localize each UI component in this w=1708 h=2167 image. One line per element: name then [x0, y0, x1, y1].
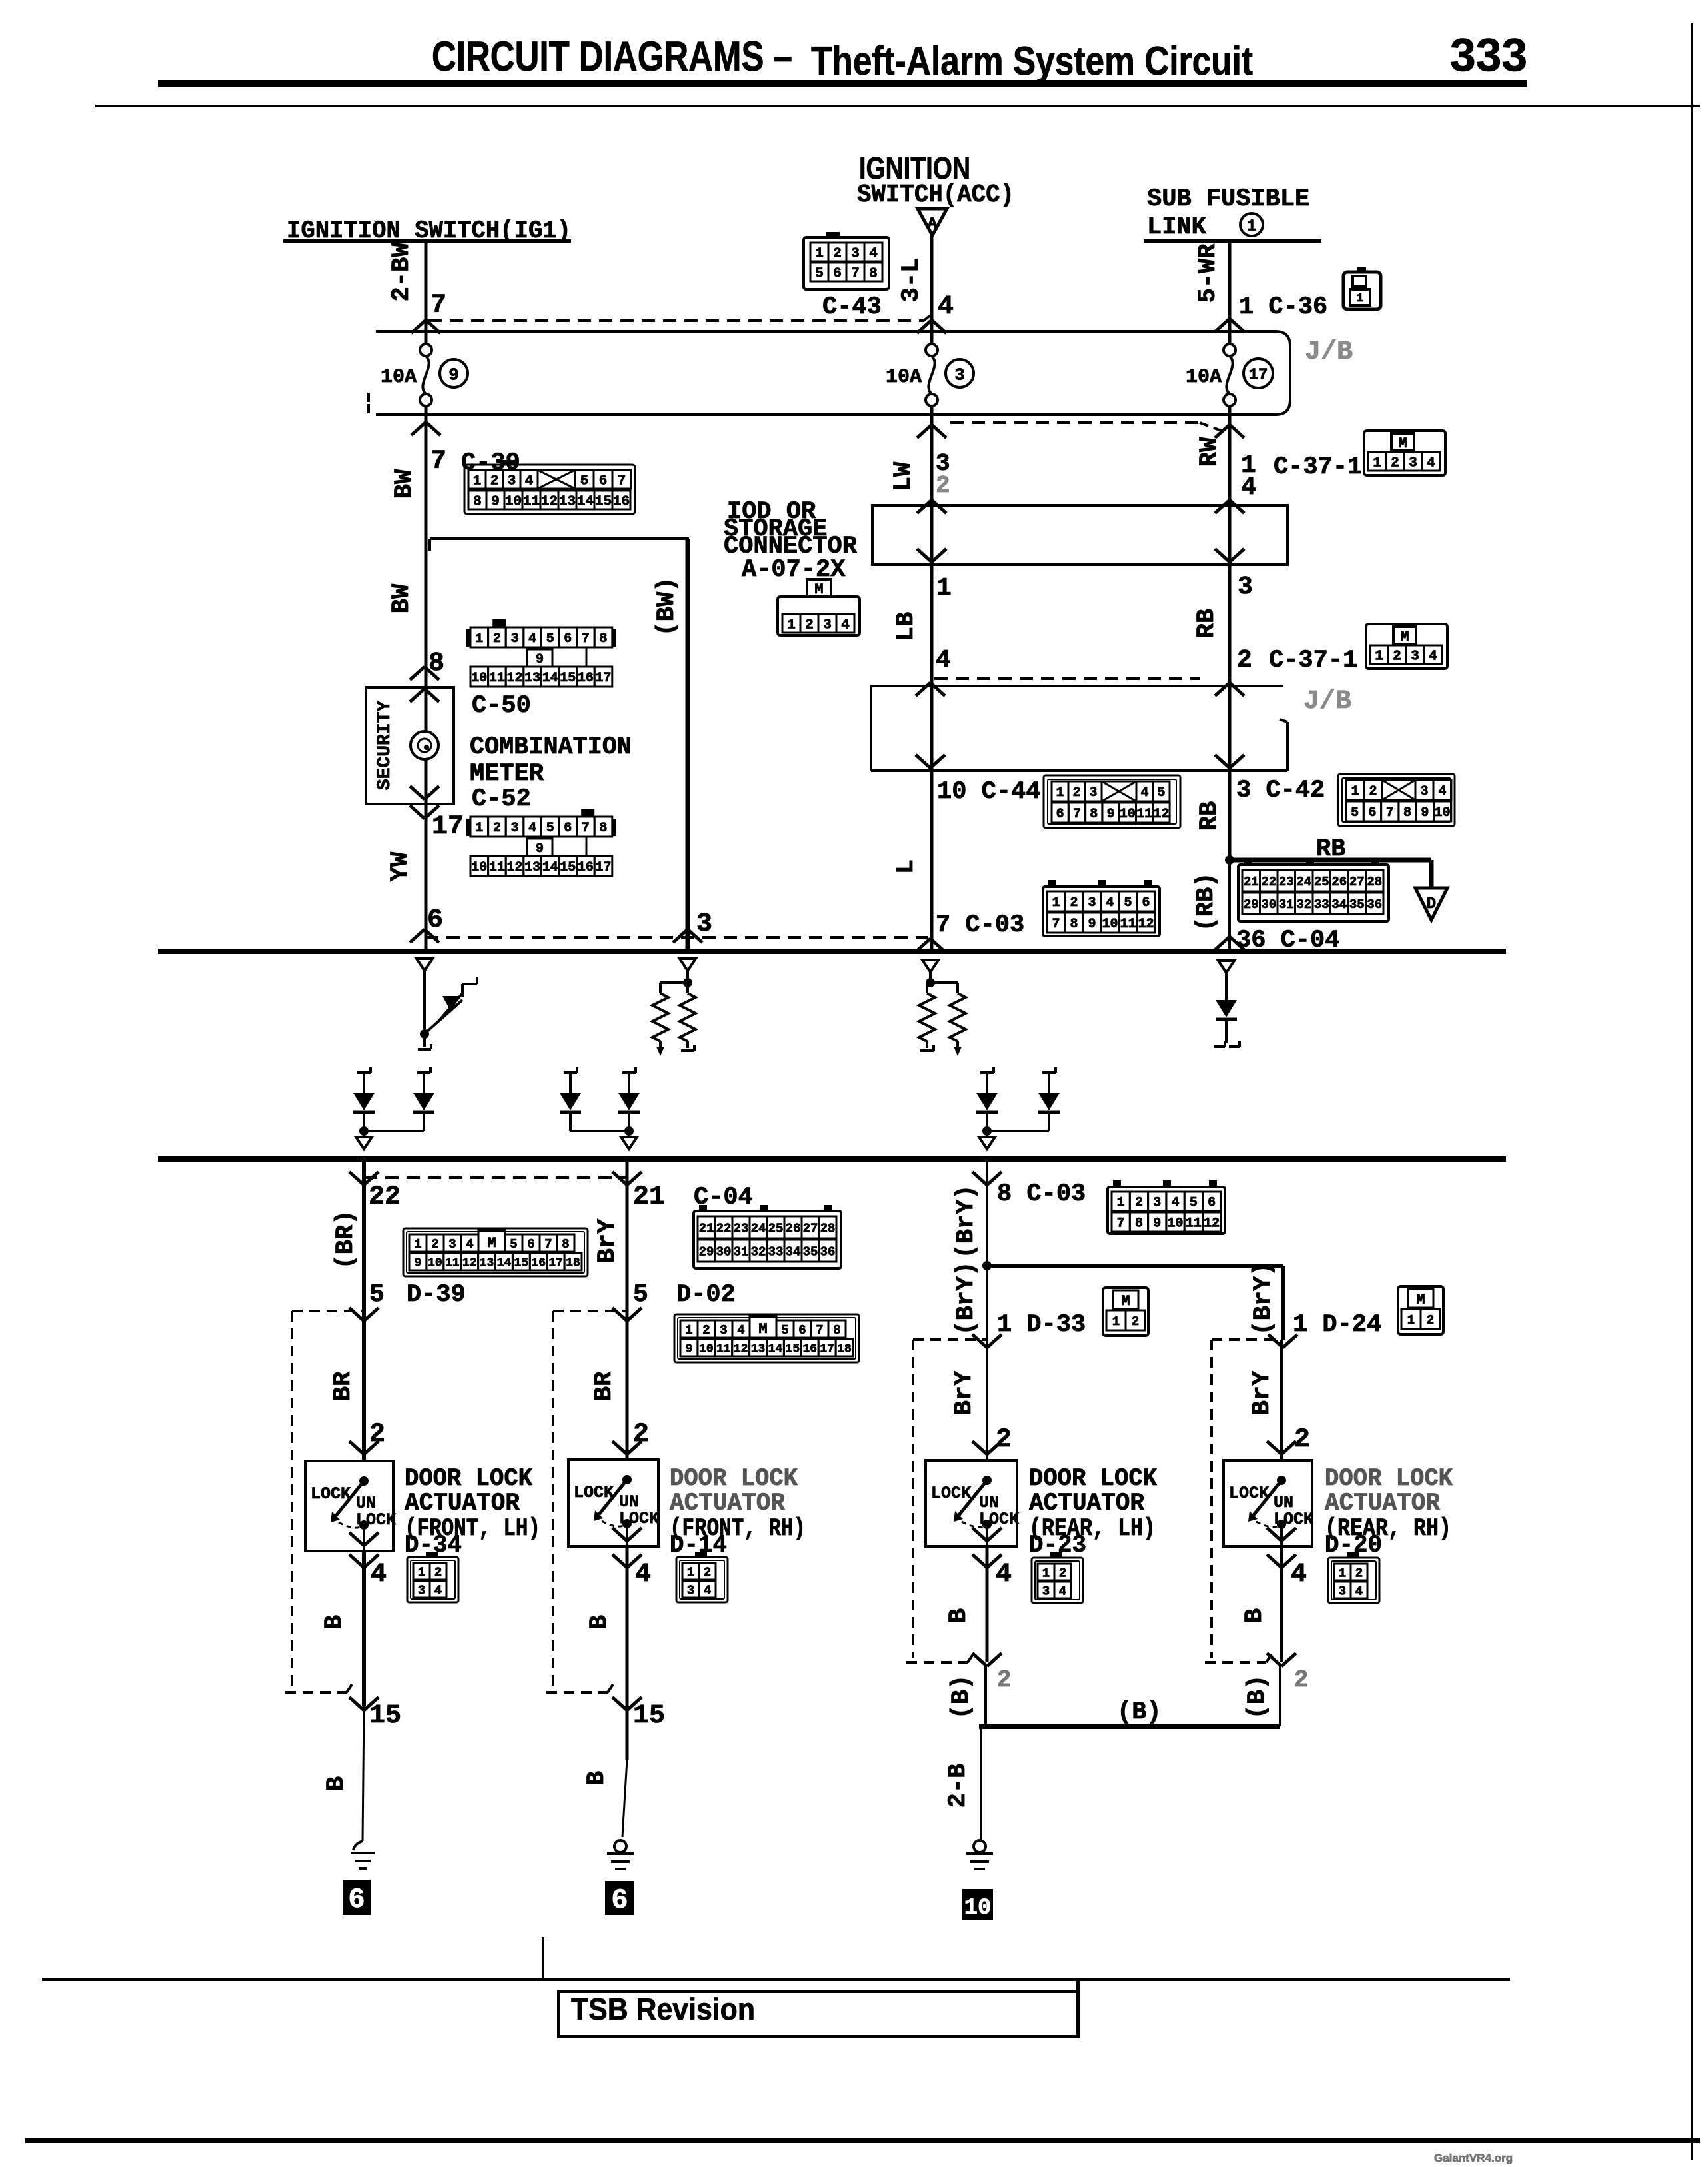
svg-text:6: 6	[348, 1884, 365, 1916]
svg-text:L: L	[892, 859, 920, 874]
svg-text:4: 4	[1291, 1560, 1307, 1590]
svg-text:1: 1	[1339, 1566, 1346, 1580]
svg-text:8: 8	[473, 495, 482, 510]
svg-text:1 D-24: 1 D-24	[1293, 1311, 1381, 1339]
svg-text:3: 3	[418, 1583, 425, 1598]
svg-text:10: 10	[1120, 807, 1136, 822]
svg-text:31: 31	[734, 1244, 749, 1259]
svg-text:9: 9	[536, 652, 544, 667]
svg-text:M: M	[1398, 435, 1407, 452]
svg-text:14: 14	[577, 495, 594, 510]
svg-text:LB: LB	[892, 612, 920, 641]
svg-text:11: 11	[489, 860, 505, 875]
svg-text:17: 17	[548, 1256, 563, 1270]
svg-text:10: 10	[1102, 917, 1118, 932]
svg-text:22: 22	[369, 1182, 401, 1212]
svg-text:RB: RB	[1193, 609, 1221, 638]
svg-text:22: 22	[716, 1221, 732, 1236]
svg-text:2: 2	[1427, 1313, 1434, 1328]
svg-text:7: 7	[582, 631, 590, 647]
svg-text:1: 1	[815, 247, 824, 262]
svg-text:4: 4	[635, 1560, 651, 1590]
svg-text:2: 2	[1294, 1666, 1309, 1694]
svg-text:3: 3	[687, 1583, 694, 1598]
svg-text:2: 2	[936, 472, 950, 499]
svg-text:3: 3	[1339, 1584, 1346, 1598]
svg-text:14: 14	[497, 1256, 512, 1270]
svg-text:2: 2	[1294, 1425, 1310, 1455]
svg-text:2: 2	[1070, 895, 1078, 911]
svg-text:12: 12	[1138, 917, 1154, 932]
svg-text:3: 3	[1420, 784, 1428, 799]
svg-text:23: 23	[1279, 875, 1294, 889]
svg-text:4: 4	[1429, 649, 1437, 665]
svg-text:14: 14	[542, 671, 558, 686]
svg-text:10A: 10A	[1186, 366, 1222, 389]
svg-text:17: 17	[820, 1342, 834, 1356]
svg-text:SWITCH(ACC): SWITCH(ACC)	[857, 181, 1014, 209]
svg-text:6: 6	[527, 1237, 534, 1252]
svg-text:17: 17	[432, 812, 464, 842]
svg-text:9: 9	[491, 495, 500, 510]
svg-text:34: 34	[786, 1244, 801, 1259]
svg-text:5: 5	[546, 631, 554, 647]
svg-text:C-39: C-39	[461, 449, 520, 477]
svg-text:9: 9	[1088, 917, 1096, 932]
svg-text:LOCK: LOCK	[1229, 1484, 1269, 1503]
svg-text:4: 4	[996, 1560, 1012, 1590]
svg-text:(BR): (BR)	[332, 1210, 360, 1270]
svg-text:7: 7	[430, 447, 446, 477]
svg-text:M: M	[487, 1235, 496, 1252]
svg-text:30: 30	[1261, 897, 1276, 912]
svg-text:28: 28	[1367, 875, 1382, 889]
svg-text:A: A	[928, 215, 938, 233]
svg-text:3: 3	[1042, 1584, 1050, 1598]
svg-text:B: B	[323, 1776, 351, 1791]
svg-text:1: 1	[1357, 292, 1364, 305]
svg-text:DOOR LOCK: DOOR LOCK	[405, 1465, 533, 1493]
svg-text:33: 33	[768, 1244, 784, 1259]
svg-text:(B): (B)	[948, 1675, 976, 1720]
svg-text:7: 7	[1052, 917, 1060, 932]
svg-text:8: 8	[599, 821, 607, 836]
svg-text:B: B	[586, 1615, 614, 1630]
svg-text:22: 22	[1261, 875, 1276, 889]
svg-text:7: 7	[851, 267, 860, 282]
svg-text:4: 4	[1106, 895, 1114, 911]
svg-text:BW: BW	[388, 583, 416, 613]
svg-text:9: 9	[448, 365, 459, 385]
svg-text:10A: 10A	[381, 366, 417, 389]
svg-text:16: 16	[578, 860, 594, 875]
svg-text:13: 13	[559, 495, 576, 510]
svg-text:32: 32	[1296, 897, 1311, 912]
svg-text:12: 12	[541, 495, 558, 510]
svg-text:2: 2	[1391, 456, 1399, 471]
svg-text:COMBINATION: COMBINATION	[470, 733, 632, 761]
svg-text:4: 4	[1241, 473, 1256, 502]
svg-text:12: 12	[734, 1342, 748, 1356]
svg-text:18: 18	[566, 1256, 580, 1270]
svg-text:2: 2	[1369, 784, 1377, 799]
svg-text:21: 21	[633, 1182, 665, 1212]
svg-text:CIRCUIT DIAGRAMS –: CIRCUIT DIAGRAMS –	[432, 33, 792, 80]
svg-text:2-B: 2-B	[944, 1764, 972, 1808]
svg-text:3: 3	[1153, 1196, 1161, 1211]
svg-text:16: 16	[531, 1256, 546, 1270]
svg-text:3: 3	[1089, 785, 1097, 801]
svg-text:YW: YW	[387, 851, 415, 881]
svg-text:5: 5	[815, 267, 824, 282]
svg-text:ACTUATOR: ACTUATOR	[670, 1490, 786, 1518]
svg-text:4: 4	[434, 1583, 442, 1598]
svg-text:BrY: BrY	[594, 1218, 622, 1263]
svg-text:3: 3	[448, 1237, 456, 1252]
svg-text:SECURITY: SECURITY	[375, 701, 395, 791]
svg-text:10: 10	[1168, 1216, 1184, 1232]
svg-text:4: 4	[528, 821, 536, 836]
svg-text:8: 8	[869, 267, 878, 282]
svg-text:6: 6	[1142, 895, 1150, 911]
svg-text:5: 5	[546, 821, 554, 836]
svg-text:34: 34	[1331, 897, 1347, 912]
svg-text:12: 12	[462, 1256, 477, 1270]
svg-text:14: 14	[542, 860, 558, 875]
svg-text:3: 3	[823, 618, 832, 633]
svg-text:5: 5	[1351, 805, 1359, 821]
svg-text:1: 1	[1375, 649, 1383, 665]
svg-text:1: 1	[1042, 1566, 1050, 1580]
svg-text:SUB FUSIBLE: SUB FUSIBLE	[1147, 185, 1309, 213]
svg-text:5: 5	[1157, 785, 1165, 801]
svg-text:(B): (B)	[1117, 1698, 1162, 1726]
svg-text:15: 15	[369, 1701, 401, 1731]
svg-text:8: 8	[1070, 917, 1078, 932]
svg-text:4: 4	[1355, 1584, 1363, 1598]
svg-text:11: 11	[1120, 917, 1136, 932]
svg-text:3: 3	[720, 1323, 727, 1338]
svg-text:10: 10	[699, 1342, 714, 1356]
svg-text:BR: BR	[329, 1371, 357, 1401]
svg-text:(BW): (BW)	[653, 577, 681, 637]
svg-text:D: D	[1427, 895, 1436, 913]
svg-text:B: B	[945, 1608, 973, 1623]
svg-text:BrY: BrY	[1248, 1370, 1276, 1415]
svg-text:6: 6	[564, 631, 572, 647]
svg-text:10A: 10A	[886, 366, 922, 389]
svg-text:LINK: LINK	[1147, 213, 1207, 241]
svg-text:7: 7	[430, 291, 446, 321]
svg-text:DOOR LOCK: DOOR LOCK	[670, 1465, 798, 1493]
svg-text:2: 2	[997, 1666, 1012, 1694]
svg-text:26: 26	[1331, 875, 1347, 889]
svg-text:17: 17	[595, 860, 611, 875]
svg-text:11: 11	[523, 495, 540, 510]
svg-text:13: 13	[524, 671, 540, 686]
svg-text:TSB Revision: TSB Revision	[571, 1992, 755, 2026]
svg-text:1: 1	[1373, 456, 1381, 471]
svg-text:C-52: C-52	[472, 785, 531, 813]
svg-text:1 C-36: 1 C-36	[1239, 293, 1327, 321]
svg-text:(RB): (RB)	[1192, 873, 1220, 932]
svg-text:10: 10	[964, 1896, 992, 1921]
svg-text:16: 16	[578, 671, 594, 686]
svg-text:32: 32	[751, 1244, 766, 1259]
svg-text:8: 8	[833, 1323, 840, 1338]
svg-text:M: M	[758, 1321, 767, 1338]
svg-text:27: 27	[1349, 875, 1365, 889]
svg-text:6: 6	[564, 821, 572, 836]
svg-text:3: 3	[954, 365, 965, 385]
svg-text:4: 4	[869, 247, 878, 262]
svg-text:5: 5	[1124, 895, 1132, 911]
svg-text:11: 11	[1136, 807, 1152, 822]
svg-text:J/B: J/B	[1305, 337, 1353, 367]
svg-text:1: 1	[1112, 1314, 1120, 1329]
svg-text:Theft-Alarm System Circuit: Theft-Alarm System Circuit	[811, 39, 1253, 83]
svg-text:6: 6	[427, 905, 443, 935]
svg-text:36: 36	[1367, 897, 1382, 912]
svg-text:15: 15	[633, 1701, 665, 1731]
svg-text:9: 9	[536, 841, 544, 857]
svg-text:13: 13	[751, 1342, 766, 1356]
svg-text:11: 11	[716, 1342, 731, 1356]
svg-text:4: 4	[528, 631, 536, 647]
svg-text:M: M	[1416, 1292, 1425, 1308]
svg-text:33: 33	[1314, 897, 1329, 912]
svg-text:12: 12	[506, 671, 522, 686]
svg-text:35: 35	[1349, 897, 1365, 912]
svg-text:RB: RB	[1196, 801, 1224, 831]
svg-text:8: 8	[1090, 807, 1098, 822]
svg-text:3: 3	[851, 247, 860, 262]
svg-text:24: 24	[751, 1221, 766, 1236]
svg-text:7: 7	[1073, 807, 1081, 822]
svg-text:5: 5	[580, 474, 589, 489]
svg-text:5-WR: 5-WR	[1194, 243, 1222, 303]
svg-text:15: 15	[514, 1256, 529, 1270]
svg-text:2: 2	[1393, 649, 1401, 665]
svg-text:21: 21	[1244, 875, 1259, 889]
svg-text:B: B	[583, 1771, 611, 1786]
svg-text:2: 2	[805, 618, 814, 633]
svg-text:C-37-1: C-37-1	[1274, 453, 1362, 481]
svg-text:11: 11	[489, 671, 505, 686]
svg-text:10: 10	[471, 671, 487, 686]
svg-text:1: 1	[1351, 784, 1359, 799]
svg-text:17: 17	[595, 671, 611, 686]
svg-text:3: 3	[1411, 649, 1419, 665]
svg-text:8: 8	[1403, 805, 1411, 821]
svg-text:8 C-03: 8 C-03	[997, 1180, 1086, 1208]
svg-text:4: 4	[938, 292, 954, 322]
svg-text:9: 9	[415, 1256, 422, 1270]
svg-text:4: 4	[1438, 784, 1446, 799]
svg-text:RW: RW	[1196, 437, 1224, 467]
svg-text:6: 6	[833, 267, 842, 282]
svg-text:8: 8	[1135, 1216, 1143, 1232]
svg-text:25: 25	[768, 1221, 784, 1236]
svg-text:13: 13	[480, 1256, 494, 1270]
svg-text:3: 3	[1409, 456, 1417, 471]
svg-text:METER: METER	[470, 760, 544, 788]
svg-text:(BrY): (BrY)	[952, 1261, 980, 1335]
svg-text:C-43: C-43	[822, 293, 882, 321]
svg-text:8: 8	[599, 631, 607, 647]
svg-text:LW: LW	[890, 461, 918, 491]
svg-text:(BrY): (BrY)	[952, 1184, 980, 1258]
svg-text:9: 9	[1107, 807, 1115, 822]
svg-text:GalantVR4.org: GalantVR4.org	[1434, 2152, 1513, 2164]
svg-text:3 C-42: 3 C-42	[1236, 777, 1325, 805]
svg-text:13: 13	[524, 860, 540, 875]
svg-text:5: 5	[510, 1237, 517, 1252]
svg-text:7: 7	[1117, 1216, 1125, 1232]
svg-text:DOOR LOCK: DOOR LOCK	[1029, 1465, 1158, 1493]
svg-text:10: 10	[1435, 805, 1451, 821]
svg-text:4: 4	[1427, 456, 1435, 471]
svg-text:3: 3	[1238, 573, 1253, 601]
svg-text:6: 6	[1368, 805, 1376, 821]
svg-text:4: 4	[936, 646, 951, 675]
svg-text:B: B	[1241, 1608, 1269, 1623]
svg-text:1: 1	[687, 1565, 694, 1580]
svg-text:RB: RB	[1316, 835, 1345, 863]
svg-text:4: 4	[525, 474, 534, 489]
svg-text:1 D-33: 1 D-33	[997, 1311, 1086, 1339]
svg-text:4: 4	[704, 1583, 711, 1598]
svg-text:BW: BW	[391, 469, 419, 499]
svg-text:2: 2	[1135, 1196, 1143, 1211]
svg-text:LOCK: LOCK	[574, 1483, 614, 1502]
svg-text:3: 3	[696, 909, 712, 939]
svg-text:27: 27	[803, 1221, 818, 1236]
svg-text:D-02: D-02	[676, 1281, 736, 1309]
svg-text:31: 31	[1279, 897, 1294, 912]
svg-text:23: 23	[734, 1221, 749, 1236]
svg-text:M: M	[1121, 1293, 1130, 1310]
svg-text:LOCK: LOCK	[311, 1484, 351, 1504]
svg-text:2: 2	[704, 1565, 711, 1580]
svg-text:14: 14	[768, 1342, 783, 1356]
svg-text:35: 35	[803, 1244, 818, 1259]
svg-text:16: 16	[802, 1342, 817, 1356]
svg-text:28: 28	[820, 1221, 836, 1236]
svg-text:ACTUATOR: ACTUATOR	[405, 1490, 520, 1518]
svg-text:12: 12	[506, 860, 522, 875]
svg-text:11: 11	[445, 1256, 460, 1270]
svg-text:29: 29	[699, 1244, 714, 1259]
svg-text:5: 5	[781, 1323, 788, 1338]
svg-text:1: 1	[787, 618, 796, 633]
svg-text:2: 2	[1355, 1566, 1363, 1580]
svg-text:2: 2	[1059, 1566, 1066, 1580]
svg-text:1: 1	[475, 631, 483, 647]
svg-text:5: 5	[369, 1280, 385, 1309]
svg-text:9: 9	[686, 1342, 693, 1356]
svg-text:21: 21	[699, 1221, 714, 1236]
svg-text:2: 2	[493, 631, 501, 647]
svg-text:BR: BR	[590, 1371, 618, 1401]
svg-text:36: 36	[820, 1244, 836, 1259]
svg-text:(B): (B)	[1244, 1675, 1272, 1720]
svg-text:8: 8	[562, 1237, 569, 1252]
svg-text:3: 3	[510, 631, 518, 647]
svg-text:DOOR LOCK: DOOR LOCK	[1325, 1465, 1453, 1493]
svg-text:16: 16	[613, 495, 630, 510]
svg-text:7 C-03: 7 C-03	[936, 911, 1024, 939]
svg-text:10: 10	[505, 495, 522, 510]
svg-text:1: 1	[1407, 1313, 1415, 1328]
svg-text:2: 2	[996, 1425, 1012, 1455]
svg-text:2: 2	[1237, 646, 1252, 675]
svg-text:C-37-1: C-37-1	[1269, 647, 1357, 675]
svg-text:2: 2	[434, 1565, 442, 1580]
svg-text:10 C-44: 10 C-44	[937, 778, 1040, 806]
svg-text:4: 4	[371, 1560, 387, 1590]
svg-text:6: 6	[798, 1323, 806, 1338]
svg-text:LOCK: LOCK	[931, 1484, 971, 1503]
svg-text:M: M	[1400, 629, 1409, 645]
svg-text:2-BW: 2-BW	[388, 242, 416, 302]
svg-text:BrY: BrY	[950, 1370, 978, 1415]
svg-text:7: 7	[816, 1323, 823, 1338]
svg-text:6: 6	[599, 474, 608, 489]
svg-text:4: 4	[841, 618, 850, 633]
svg-text:J/B: J/B	[1303, 687, 1351, 717]
svg-text:11: 11	[1186, 1216, 1202, 1232]
svg-text:4: 4	[1059, 1584, 1066, 1598]
svg-text:15: 15	[786, 1342, 800, 1356]
svg-text:6: 6	[1208, 1196, 1216, 1211]
svg-text:6: 6	[611, 1884, 628, 1916]
svg-text:15: 15	[560, 671, 576, 686]
svg-text:1: 1	[1117, 1196, 1125, 1211]
svg-text:15: 15	[595, 495, 612, 510]
svg-text:18: 18	[837, 1342, 852, 1356]
svg-text:5: 5	[633, 1280, 648, 1309]
svg-text:25: 25	[1314, 875, 1329, 889]
svg-text:ACTUATOR: ACTUATOR	[1029, 1490, 1145, 1518]
svg-text:2: 2	[1072, 785, 1080, 801]
svg-text:2: 2	[493, 821, 501, 836]
svg-text:C-50: C-50	[472, 692, 531, 720]
svg-text:10: 10	[428, 1256, 442, 1270]
svg-text:4: 4	[1172, 1196, 1180, 1211]
svg-text:1: 1	[936, 574, 952, 603]
svg-text:3: 3	[1088, 895, 1096, 911]
svg-text:333: 333	[1450, 29, 1527, 81]
svg-text:15: 15	[560, 860, 576, 875]
svg-text:9: 9	[1153, 1216, 1161, 1232]
svg-text:1: 1	[1056, 785, 1064, 801]
svg-text:ACTUATOR: ACTUATOR	[1325, 1490, 1441, 1518]
svg-text:1: 1	[418, 1565, 425, 1580]
svg-text:B: B	[321, 1615, 349, 1630]
svg-text:4: 4	[737, 1323, 744, 1338]
svg-text:2: 2	[431, 1237, 438, 1252]
svg-text:7: 7	[618, 474, 626, 489]
svg-text:2: 2	[833, 247, 842, 262]
svg-text:12: 12	[1153, 807, 1169, 822]
svg-text:4: 4	[1140, 785, 1148, 801]
svg-text:17: 17	[1249, 367, 1268, 385]
svg-text:7: 7	[1386, 805, 1394, 821]
svg-text:(BrY): (BrY)	[1250, 1261, 1278, 1335]
svg-text:D-39: D-39	[407, 1281, 466, 1309]
svg-text:1: 1	[475, 821, 483, 836]
